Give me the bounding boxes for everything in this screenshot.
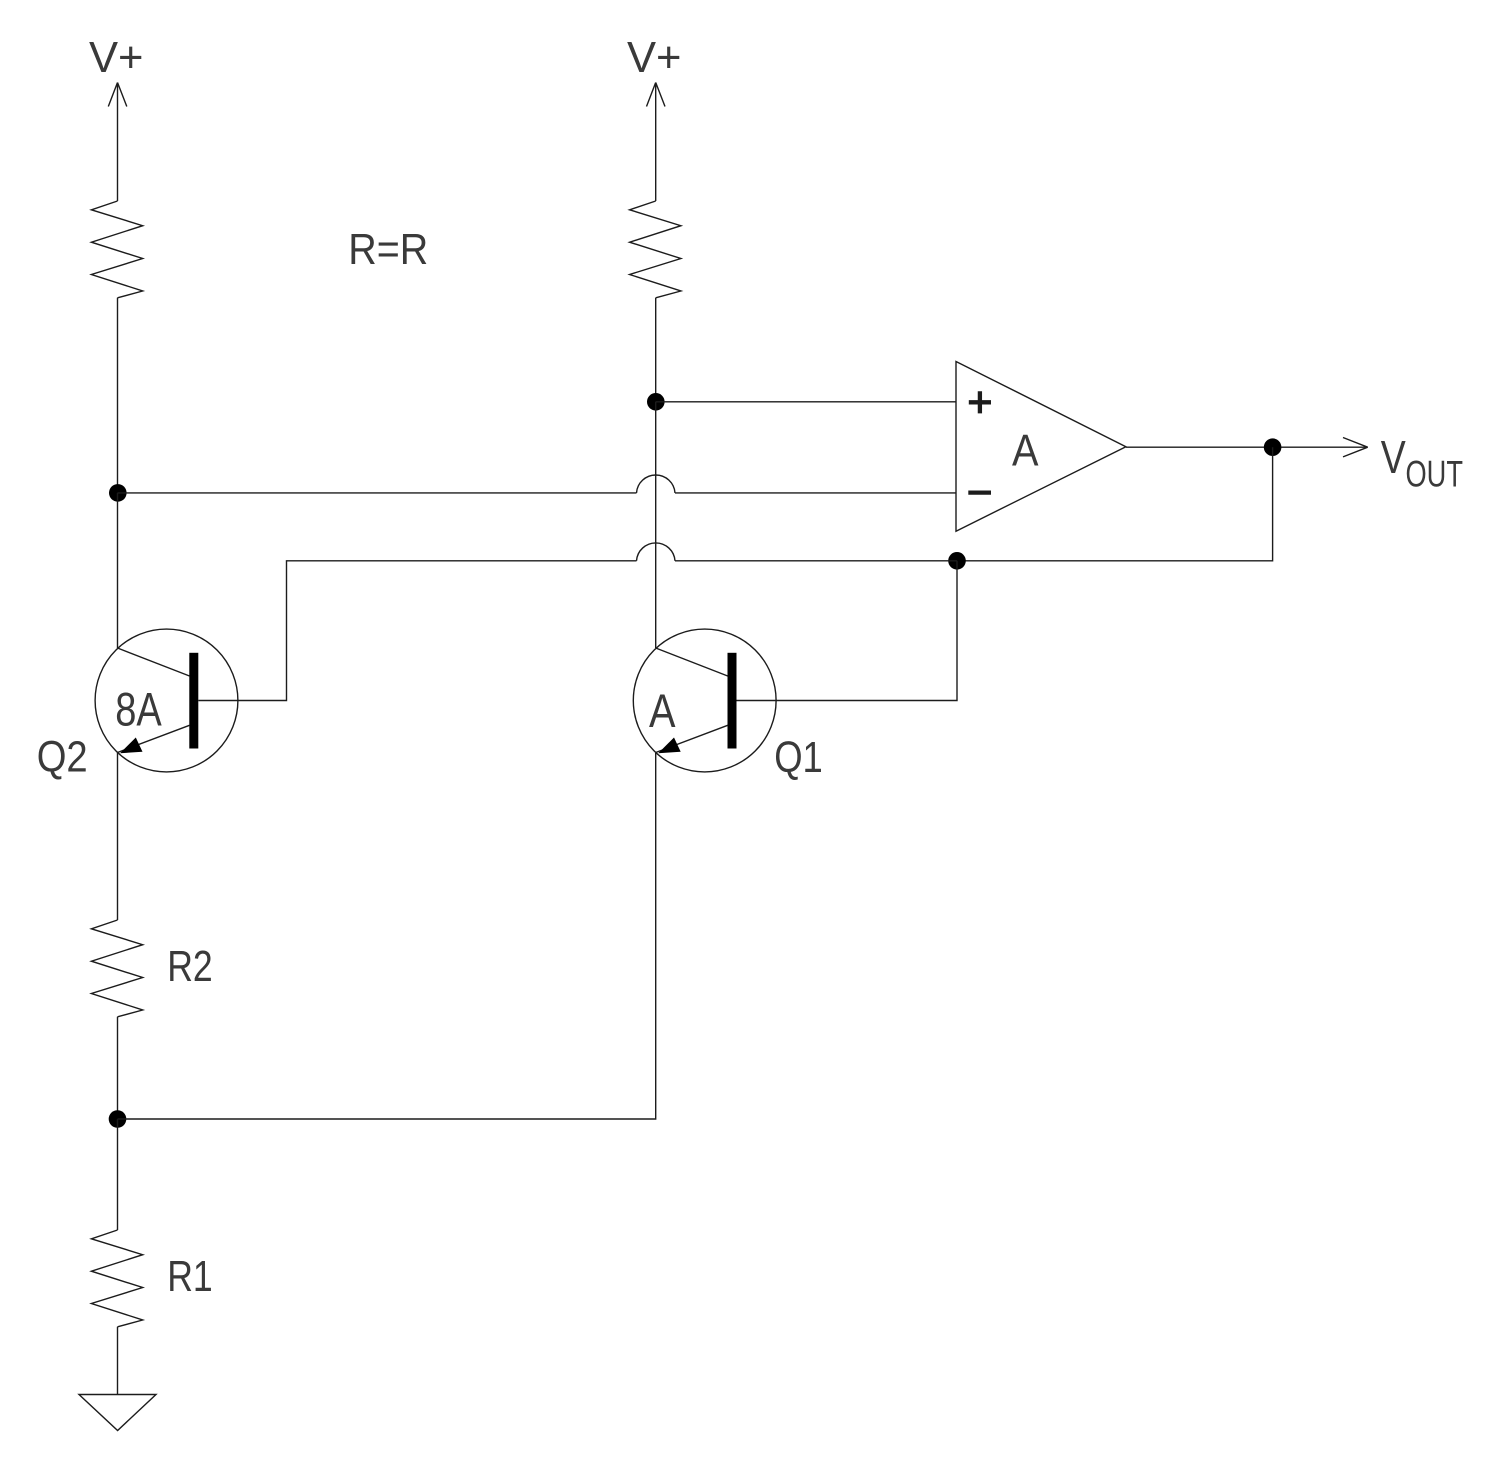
wire R2 to bottom node <box>117 1017 119 1119</box>
wire Q1 base <box>737 561 958 701</box>
transistor Q2 <box>95 629 238 772</box>
power V+ arrow (left) <box>108 83 127 202</box>
svg-text:R1: R1 <box>167 1252 213 1301</box>
wire left rail: node to Q2 collector <box>117 493 119 648</box>
wire R1 to ground <box>117 1327 119 1395</box>
wire inverting input (left part) <box>118 492 637 494</box>
wire left rail: resistor to node <box>117 298 119 493</box>
resistor R1 <box>91 1230 142 1327</box>
wire feedback: output down and left to node <box>957 447 1273 561</box>
wire right rail: node to Q1 collector <box>655 402 657 648</box>
node: R1/R2/Q1-emitter junction <box>109 1110 127 1128</box>
resistor R (top left) <box>91 201 142 298</box>
wire bottom node to Q1 emitter rail <box>118 753 656 1119</box>
svg-text:V: V <box>1381 431 1406 483</box>
svg-text:V+: V+ <box>89 33 144 82</box>
wire hop over right rail (inverting input) <box>637 475 676 493</box>
svg-text:Q1: Q1 <box>774 733 823 782</box>
svg-text:R=R: R=R <box>348 225 428 274</box>
ground <box>79 1395 156 1431</box>
node: output junction <box>1264 438 1282 456</box>
resistor R (top right) <box>630 201 681 298</box>
wire inverting input (right part) <box>675 492 956 494</box>
svg-text:8A: 8A <box>115 684 162 737</box>
transistor Q1 <box>633 629 776 772</box>
svg-text:A: A <box>1012 426 1039 475</box>
wire Q2 emitter to R2 <box>117 753 119 921</box>
wire hop over right rail (feedback) <box>637 543 676 561</box>
node: feedback split <box>948 552 966 570</box>
op-amp A <box>956 362 1126 532</box>
svg-text:A: A <box>649 685 676 738</box>
wire non-inverting input <box>656 401 956 403</box>
arrow head Vout <box>1343 438 1368 457</box>
wire op-amp output <box>1126 446 1368 448</box>
power V+ arrow (right) <box>647 83 666 202</box>
svg-text:OUT: OUT <box>1406 452 1464 494</box>
wire right rail: resistor to node <box>655 298 657 402</box>
wire feedback: hop to Q2 base <box>198 561 636 701</box>
node: left rail / inverting-input junction <box>109 484 127 502</box>
svg-text:R2: R2 <box>167 942 213 991</box>
svg-text:V+: V+ <box>627 33 682 82</box>
wire bottom node to R1 <box>117 1119 119 1230</box>
resistor R2 <box>91 920 142 1017</box>
node: right rail / non-inverting input junction <box>647 393 665 411</box>
wire feedback: node to hop <box>675 560 957 562</box>
svg-text:Q2: Q2 <box>37 733 88 782</box>
